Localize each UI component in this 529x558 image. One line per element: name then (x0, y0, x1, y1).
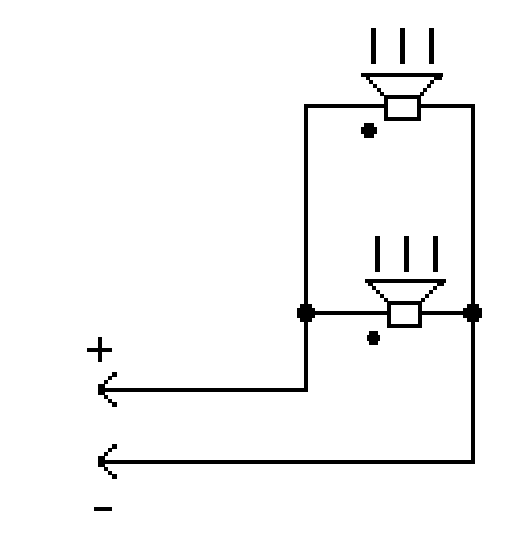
speaker LS1 cone right side (420, 76, 442, 96)
speaker LS2 polarity dot (367, 331, 380, 345)
speaker LS2 cone right side (421, 282, 444, 302)
wire middle right segment (422, 311, 475, 315)
speaker LS2 sound lines (375, 236, 438, 272)
speaker LS1 cone top line (361, 73, 443, 77)
speaker LS2 cone top line (365, 279, 446, 283)
wire middle left segment (304, 311, 387, 315)
label plus sign (87, 337, 112, 362)
junction left (297, 304, 315, 322)
terminal arrow minus (98, 444, 117, 479)
wire top left segment (304, 104, 384, 108)
junction right (463, 304, 482, 322)
speaker LS1 sound lines (371, 28, 434, 64)
speaker LS1 polarity dot (361, 123, 377, 138)
label minus sign (94, 507, 112, 511)
wire minus lead horizontal (100, 460, 475, 464)
speaker LS1 cone left side (366, 76, 384, 96)
wire plus lead horizontal (100, 388, 308, 392)
terminal arrow plus (98, 372, 117, 407)
speaker LS1 driver box (384, 95, 421, 121)
wire right vertical (471, 104, 475, 464)
speaker LS2 cone left side (368, 282, 388, 302)
wire left vertical (304, 104, 308, 392)
speaker LS2 driver box (387, 301, 422, 328)
wire top right segment (421, 104, 475, 108)
